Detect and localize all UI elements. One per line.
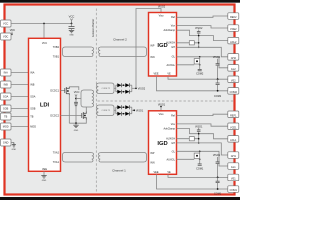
ground symbol at GND terminal — [11, 143, 17, 151]
transformer T2 secondary — [98, 153, 146, 163]
terminal REF2 — [228, 13, 239, 19]
diode D5 — [117, 105, 121, 109]
svg-text:INN: INN — [150, 56, 155, 59]
capacitor C10 — [216, 177, 220, 189]
rectifier input bar ch1 — [115, 107, 117, 114]
wire DCDC2 — [61, 115, 82, 117]
transistor Q4 booster ch1 — [194, 151, 200, 158]
wire TB — [11, 116, 29, 118]
svg-text:VISO2: VISO2 — [138, 87, 146, 90]
junction center tap — [75, 98, 77, 100]
svg-text:INB: INB — [30, 84, 35, 87]
wire VE1 — [168, 174, 228, 177]
svg-text:Isolation Barrier: Isolation Barrier — [91, 19, 95, 37]
terminal GL1 — [228, 163, 239, 170]
junction VISO1 net — [133, 109, 135, 111]
svg-text:VISO2: VISO2 — [158, 5, 166, 8]
wire VE2 — [168, 76, 228, 79]
wire rectifier top rail ch1 — [116, 106, 132, 108]
top black bar — [0, 0, 240, 3]
terminal VE1 — [228, 174, 239, 181]
svg-text:VEE: VEE — [153, 171, 158, 174]
svg-text:VCC: VCC — [69, 14, 75, 18]
junction AUXGH2 — [198, 42, 200, 44]
junction COM1 buffer — [217, 188, 219, 190]
svg-text:REF1: REF1 — [230, 114, 237, 117]
wire AUXGL1 — [177, 158, 195, 160]
bottom black bar — [0, 197, 240, 200]
transistor Q1 — [65, 87, 70, 95]
svg-text:SOB: SOB — [3, 108, 9, 111]
svg-text:MOD: MOD — [3, 126, 9, 129]
wire SOA — [11, 96, 29, 98]
svg-text:INN: INN — [150, 161, 155, 164]
svg-text:VDC: VDC — [10, 29, 15, 32]
capacitor C1 — [69, 24, 75, 31]
junction boost-GH1 — [198, 142, 200, 144]
svg-text:GH: GH — [171, 46, 175, 49]
capacitor C9 — [216, 157, 220, 177]
terminal GND — [1, 139, 12, 146]
block IGD U2 (channel 2) — [149, 13, 177, 77]
capacitor C5 — [216, 59, 220, 79]
transistor Q3 booster ch2 — [194, 57, 200, 64]
svg-text:ACL2: ACL2 — [230, 41, 237, 44]
svg-text:GL2: GL2 — [231, 68, 236, 71]
junction VCC cap — [71, 23, 73, 25]
capacitor C6 — [216, 79, 220, 91]
junction VCC to LDI — [43, 23, 45, 25]
svg-text:Channel 2: Channel 2 — [113, 37, 127, 41]
terminal INB — [1, 81, 12, 88]
wire center tap — [76, 98, 81, 100]
diode D6 — [125, 105, 129, 109]
terminal GH2 — [228, 54, 239, 61]
svg-text:Vce: Vce — [171, 25, 176, 28]
svg-text:GND: GND — [42, 180, 47, 182]
svg-text:AdvClamp: AdvClamp — [163, 127, 175, 130]
terminal TB — [1, 113, 12, 120]
junction GL2 tap — [199, 56, 201, 58]
junction D3-D4 — [123, 91, 125, 93]
wire INB — [11, 84, 29, 86]
wire VISO2 riser — [136, 9, 161, 89]
svg-text:GND: GND — [12, 149, 17, 151]
resistor R2 — [189, 137, 194, 141]
ground push-pull — [73, 123, 78, 132]
transformer T2 primary (channel 1 signal) — [63, 153, 94, 163]
svg-text:VCC: VCC — [42, 42, 47, 45]
wire Q2 source to gnd rail — [69, 120, 86, 124]
svg-text:AUXGH: AUXGH — [166, 42, 175, 45]
junction boost-GH2 — [198, 47, 200, 49]
transformer T3 secondary channel 1 — [97, 105, 114, 116]
rectifier output bar ch2 — [131, 85, 133, 92]
junction AUXGL1 — [199, 159, 201, 161]
wire AUXGH2 — [177, 42, 199, 44]
wire VCC rail — [11, 23, 72, 25]
junction VISO1 stub — [160, 106, 162, 108]
terminal COM1 — [228, 186, 239, 193]
wire GH2 — [177, 47, 229, 57]
svg-text:GL1: GL1 — [231, 166, 236, 169]
wire COM1 — [157, 174, 229, 189]
ground below LDI — [41, 171, 46, 182]
diode D2 — [125, 83, 129, 87]
wire VISO1 stub — [160, 106, 162, 111]
svg-text:TXB1: TXB1 — [53, 56, 60, 59]
wire COM2 — [157, 76, 229, 91]
svg-text:GND: GND — [3, 142, 9, 145]
svg-text:LDI: LDI — [40, 103, 50, 109]
wire Vce2 — [177, 26, 229, 28]
svg-text:VE: VE — [167, 171, 171, 174]
diode D4 — [125, 90, 129, 94]
junction gnd rail — [75, 122, 77, 124]
svg-text:VCC: VCC — [74, 90, 80, 94]
terminal VCE2 — [228, 25, 239, 32]
svg-text:TB: TB — [4, 116, 8, 119]
svg-text:VISO1: VISO1 — [136, 109, 144, 112]
svg-text:VEE: VEE — [42, 168, 47, 171]
svg-text:AUXGL: AUXGL — [167, 64, 176, 67]
junction COM2 buffer — [217, 90, 219, 92]
svg-text:INP: INP — [150, 152, 155, 155]
junction boost-advclamp ch2 — [198, 35, 200, 37]
terminal INA — [1, 69, 12, 76]
svg-text:GH: GH — [171, 142, 175, 145]
svg-text:TXA2: TXA2 — [53, 152, 60, 155]
svg-text:Channel 1: Channel 1 — [112, 169, 126, 173]
svg-text:IGD: IGD — [157, 141, 167, 147]
node VCC push-pull — [74, 90, 80, 123]
svg-text:VEE: VEE — [153, 73, 158, 76]
channel separator dashed — [98, 100, 234, 102]
wire rectifier bottom rail ch2 — [116, 91, 132, 93]
capacitor C8 — [198, 159, 202, 166]
svg-text:INB: INB — [4, 84, 9, 87]
wire GL1 — [177, 151, 229, 166]
wire GH1 — [177, 143, 229, 155]
junction boost-advclamp ch1 — [198, 133, 200, 135]
isolation barrier — [91, 9, 97, 193]
svg-text:INA: INA — [4, 72, 9, 75]
svg-text:TB: TB — [30, 116, 34, 119]
svg-text:VCE1: VCE1 — [230, 126, 237, 129]
wire SOB — [11, 108, 29, 110]
junction AUXGL2 — [199, 64, 201, 66]
svg-text:Viso: Viso — [159, 113, 164, 116]
svg-text:COM1: COM1 — [230, 189, 238, 192]
svg-text:Vce: Vce — [171, 123, 176, 126]
VDC arrow label — [10, 29, 15, 35]
svg-text:VISO1: VISO1 — [213, 154, 221, 157]
junction GL1 tap — [199, 151, 201, 153]
svg-text:VE: VE — [167, 73, 171, 76]
svg-text:VDC: VDC — [3, 36, 8, 39]
transformer T3 secondary channel 2 — [97, 83, 114, 94]
svg-text:CORE T2: CORE T2 — [102, 88, 112, 90]
svg-text:GH2: GH2 — [231, 57, 237, 60]
svg-text:COM2: COM2 — [214, 95, 222, 98]
terminal ACL2 — [228, 37, 239, 44]
svg-text:VCC: VCC — [3, 23, 8, 26]
capacitor C7 — [197, 128, 201, 143]
svg-text:COM1: COM1 — [214, 193, 222, 196]
svg-text:COM2: COM2 — [196, 73, 204, 76]
terminal COM2 — [228, 88, 239, 95]
svg-text:INA: INA — [30, 72, 35, 75]
svg-text:VCE2: VCE2 — [230, 28, 237, 31]
junction D5-D6 — [123, 106, 125, 108]
junction VE1 buffer — [217, 177, 219, 179]
svg-text:GND: GND — [69, 35, 74, 37]
terminal VE2 — [228, 76, 239, 83]
svg-text:GH1: GH1 — [231, 155, 237, 158]
terminal VCC — [1, 20, 12, 27]
svg-text:COM1: COM1 — [196, 167, 204, 170]
terminal MOD — [1, 123, 12, 130]
svg-text:Viso: Viso — [159, 15, 164, 18]
svg-text:TXA1: TXA1 — [53, 161, 60, 164]
svg-text:GND: GND — [74, 130, 79, 132]
diode D8 — [125, 112, 129, 116]
junction D7-D8 — [123, 113, 125, 115]
svg-text:AdvClamp: AdvClamp — [163, 29, 175, 32]
svg-text:CORE T2: CORE T2 — [102, 110, 112, 112]
wire GL2 — [177, 57, 229, 68]
diode D3 — [117, 90, 121, 94]
junction VE2 buffer — [217, 78, 219, 80]
wire rectifier top rail ch2 — [116, 84, 132, 86]
svg-text:ACL1: ACL1 — [230, 139, 237, 142]
node VCC symbol — [69, 14, 75, 23]
terminal VCE1 — [228, 123, 239, 130]
ground below C1 — [69, 30, 74, 36]
junction AUXGH1 — [198, 138, 200, 140]
wire T3 sec1 to rectifier — [114, 109, 116, 111]
capacitor C2 marks — [74, 102, 78, 105]
wire Q1 source to gnd rail — [68, 95, 70, 123]
terminal REF1 — [228, 111, 239, 118]
svg-text:REF2: REF2 — [230, 16, 237, 19]
terminal SOB — [1, 105, 12, 112]
svg-text:DCDC1: DCDC1 — [50, 90, 59, 93]
svg-text:SOA: SOA — [3, 96, 9, 99]
terminal GH1 — [228, 152, 239, 159]
svg-text:Ref: Ref — [171, 16, 175, 19]
wire Q2 drain to T3 — [85, 107, 87, 112]
wire MOD — [11, 126, 29, 128]
wire rectifier out ch2 — [132, 87, 136, 89]
rectifier input bar ch2 — [115, 85, 117, 92]
resistor R1 — [189, 41, 194, 45]
wire Q1 drain to T3 — [69, 87, 79, 90]
wire INA — [11, 72, 29, 74]
wire AdvClamp2 — [177, 30, 229, 40]
svg-text:VISO2: VISO2 — [213, 56, 221, 59]
capacitor C4 — [198, 64, 202, 71]
wire VCC drop to LDI — [43, 24, 45, 39]
terminal ACL1 — [228, 136, 239, 143]
wire Ref2 — [177, 16, 229, 17]
junction VISO2 net — [135, 87, 137, 89]
terminal GL2 — [228, 65, 239, 72]
svg-text:INP: INP — [150, 44, 155, 47]
white margin — [0, 3, 240, 197]
svg-text:COM2: COM2 — [230, 91, 238, 94]
wire DCDC1 — [61, 90, 65, 92]
svg-text:TXB2: TXB2 — [53, 46, 60, 49]
junction D1-D2 — [123, 84, 125, 86]
rectifier output bar ch1 — [131, 107, 133, 114]
transformer T3 primary (DCDC) — [81, 90, 94, 107]
wire AdvClamp1 — [177, 129, 229, 139]
block IGD U3 (channel 1) — [149, 111, 177, 175]
wire T3 sec2 to rectifier — [114, 87, 116, 89]
block LDI U1 — [29, 38, 61, 171]
svg-text:AUXGH: AUXGH — [166, 138, 175, 141]
wire rectifier bottom rail ch1 — [116, 113, 132, 115]
terminal VDC — [1, 33, 12, 40]
svg-text:SOA: SOA — [30, 96, 36, 99]
capacitor C3 — [197, 30, 201, 48]
transformer T1 secondary — [98, 47, 146, 57]
svg-text:VISO1: VISO1 — [158, 103, 166, 106]
diode D1 — [117, 83, 121, 87]
wire Vce1 — [177, 124, 229, 126]
wire rectifier out ch1 — [132, 109, 134, 111]
svg-text:DCDC2: DCDC2 — [50, 115, 59, 118]
wire AUXGL2 — [177, 64, 195, 66]
svg-text:VE2: VE2 — [231, 79, 236, 82]
wire AUXGH1 — [177, 138, 199, 140]
diode D7 — [117, 112, 121, 116]
schematic frame — [5, 5, 235, 195]
terminal SOA — [1, 93, 12, 100]
transformer T1 primary (channel 2 signal) — [63, 47, 94, 57]
svg-text:SOB: SOB — [30, 108, 36, 111]
svg-text:AUXGL: AUXGL — [167, 158, 176, 161]
svg-text:Ref: Ref — [171, 115, 175, 118]
wire Ref1 — [177, 114, 229, 115]
transistor Q2 — [82, 112, 87, 120]
svg-text:VE1: VE1 — [231, 178, 236, 181]
svg-text:MOD: MOD — [30, 126, 36, 129]
